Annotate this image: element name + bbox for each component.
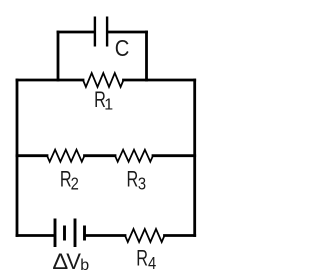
label R1 [94,88,106,113]
wire: capacitor loop right vertical [145,32,148,80]
svg-text:R: R [136,246,148,271]
wire: outer right vertical [193,80,196,236]
resistor R1 zigzag [83,73,124,87]
wire: middle row segment between R2 and R3 [85,154,116,157]
wire: middle row left segment (edge to R2) [17,154,47,157]
wire: top row left segment (edge to R1) [17,79,83,82]
wire: top row right segment (R1 to edge) [124,79,195,82]
svg-text:C: C [115,35,130,62]
label R2 [60,167,72,192]
svg-text:2: 2 [71,174,79,194]
wire: middle row right segment (R3 to edge) [153,154,195,157]
resistor R3 zigzag [115,150,153,162]
label R3 [127,167,139,192]
svg-text:3: 3 [138,174,146,194]
resistor R2 zigzag [47,150,85,162]
wire: capacitor loop top right segment [108,31,147,34]
wire: bottom row left segment (edge to battery) [17,234,54,237]
wire: bottom row segment battery to R4 [85,234,125,237]
label R4 [136,246,148,271]
svg-text:1: 1 [104,96,113,113]
battery dV_b plates [55,219,85,248]
capacitor C plates [95,17,107,47]
wire: capacitor loop left vertical [57,32,60,80]
wire: outer left vertical [16,80,19,236]
resistor R4 zigzag [125,229,165,242]
svg-text:V: V [66,249,81,274]
wire: capacitor loop top left segment [58,31,94,34]
label dV_b [52,249,68,274]
label C [115,35,130,62]
svg-text:4: 4 [148,254,156,274]
wire: bottom row right segment (R4 to edge) [165,234,195,237]
svg-text:b: b [80,257,89,274]
svg-text:R: R [127,167,139,192]
